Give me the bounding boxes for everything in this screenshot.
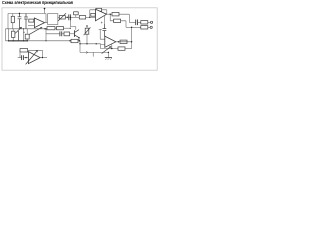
- wire plus input U3: [101, 43, 105, 46]
- wire: [55, 27, 57, 29]
- wire: [121, 21, 126, 28]
- resistor R10 rail: [47, 27, 55, 30]
- transistor Q1: [15, 27, 22, 41]
- wire U4 input: [18, 57, 22, 59]
- wire: [62, 33, 64, 35]
- wire bottom rail: [6, 40, 72, 42]
- capacitor C2: [24, 14, 28, 29]
- wire U1 feedback: [45, 14, 47, 23]
- resistor R19 feedback U2: [96, 8, 102, 11]
- wire left vertical B: [5, 29, 7, 41]
- stub below bias wire: [92, 52, 94, 56]
- resistor R12: [64, 32, 70, 36]
- wire U4 out: [40, 57, 47, 59]
- resistor R13: [71, 39, 78, 42]
- wire: [64, 27, 71, 29]
- wire y43.8: [80, 43, 101, 45]
- wire bottom rail dark segment: [8, 40, 28, 42]
- wire U2 power: [103, 16, 105, 24]
- capacitor C7 above U3: [103, 24, 107, 36]
- wire U3 out: [116, 41, 132, 43]
- resistor R6: [112, 13, 119, 16]
- variable arrow R14: [84, 27, 91, 35]
- box K1: [48, 14, 58, 25]
- wire top rail A: [8, 13, 46, 15]
- wire: [78, 41, 80, 52]
- wire: [70, 33, 75, 35]
- wire vertical x8: [8, 29, 10, 41]
- wire bias y52.4: [80, 51, 108, 53]
- resistor R9: [141, 26, 148, 29]
- wire fb U4: [20, 50, 42, 57]
- wire: [125, 48, 132, 50]
- wire U1 output: [45, 22, 48, 24]
- resistor R18 input U2: [91, 13, 95, 16]
- wire out right: [119, 14, 129, 22]
- wire U2 out: [107, 13, 112, 15]
- resistor R14 vertical: [85, 28, 89, 34]
- capacitor C8: [22, 55, 24, 60]
- wire rail mid: [6, 28, 47, 30]
- capacitor C5: [136, 20, 138, 26]
- wire connector row1: [129, 21, 135, 23]
- variable arrow R4: [58, 13, 66, 21]
- wire vertical x70: [70, 17, 76, 29]
- wire U3 fb row2: [101, 44, 118, 48]
- resistor R17 fb U4: [20, 49, 28, 52]
- wire: [23, 57, 28, 59]
- capacitor C4: [69, 14, 71, 20]
- op-amp U2: [96, 9, 107, 21]
- variable arrow U4: [26, 50, 38, 64]
- op-amp U4: [28, 52, 40, 64]
- wire: [138, 21, 141, 23]
- terminal X1: [151, 21, 153, 23]
- op-amp U1: [34, 18, 44, 28]
- wire U2 feedback: [90, 10, 107, 17]
- wire: [65, 16, 69, 18]
- sheet border: [2, 8, 157, 70]
- variable arrow long: [30, 27, 43, 34]
- wire chain y17: [58, 16, 60, 18]
- resistor R8: [141, 21, 148, 24]
- resistor R5: [79, 16, 85, 19]
- resistor R3 input: [29, 19, 34, 22]
- resistor R15: [120, 40, 127, 43]
- wire: [71, 16, 80, 18]
- node +V top: [44, 8, 46, 13]
- wire vertical x23: [23, 29, 25, 41]
- variable arrow bias: [102, 46, 111, 53]
- title: Схема электрическая принципиальная: [2, 0, 73, 5]
- resistor R2: [12, 31, 15, 37]
- resistor R7: [114, 19, 121, 22]
- ground: [105, 57, 112, 59]
- resistor R1: [11, 16, 14, 22]
- wire left vertical A: [7, 14, 9, 29]
- resistor R4: [59, 16, 65, 19]
- resistor R11: [57, 27, 64, 30]
- op-amp U3: [105, 36, 116, 47]
- wire long vertical: [131, 27, 133, 48]
- capacitor C6: [60, 31, 62, 36]
- capacitor C1: [18, 14, 22, 29]
- wire to ground: [107, 52, 109, 57]
- plus mark: [101, 22, 103, 24]
- wire to U2: [86, 16, 96, 18]
- wire to terminal 2: [148, 26, 150, 28]
- wire to terminal 1: [148, 21, 151, 23]
- wire minus input U3: [99, 29, 105, 39]
- capacitor C9 small: [74, 12, 79, 15]
- node dots: [44, 8, 46, 10]
- terminal X2: [150, 26, 152, 28]
- capacitor C3 polarized: [25, 34, 29, 39]
- arrowhead bias: [86, 51, 88, 53]
- transistor Q2: [74, 30, 76, 37]
- wire mid y33.8: [46, 29, 60, 41]
- resistor R16: [118, 47, 125, 50]
- wire connector row2: [126, 26, 141, 28]
- wire U1 inputs: [28, 24, 34, 26]
- wire branch down: [110, 14, 113, 21]
